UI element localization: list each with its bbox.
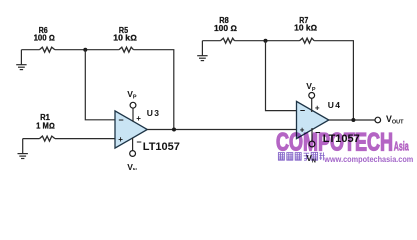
ground (left of R8) — [197, 41, 207, 61]
op-amp U3 VP pin stub — [132, 108, 134, 122]
svg-text:Asia: Asia — [394, 140, 410, 154]
wire node A down to inverting input of U3 — [85, 50, 114, 120]
node A (junction R6/R5/feedback) — [83, 48, 87, 52]
svg-text:1 MΩ: 1 MΩ — [36, 121, 55, 130]
svg-text:100 Ω: 100 Ω — [214, 24, 237, 33]
op-amp U4 body — [297, 101, 329, 138]
wire R1 to non-inverting input of U3 — [55, 138, 115, 140]
resistor R5 — [119, 47, 134, 52]
wire R7 to corner, down to output node — [314, 41, 353, 120]
svg-text:10 kΩ: 10 kΩ — [294, 24, 317, 33]
svg-text:+: + — [118, 135, 123, 144]
svg-text:LT1057: LT1057 — [143, 141, 180, 153]
op-amp U3 VN pin stub — [132, 138, 134, 151]
op-amp U4 VP pin stub — [311, 98, 313, 112]
resistor R8 — [220, 38, 234, 43]
VOUT terminal — [375, 117, 381, 123]
resistor R7 — [300, 38, 315, 43]
ground (left of R6) — [16, 50, 26, 70]
node B (U3 output / feedback junction) — [172, 128, 176, 132]
svg-text:100 Ω: 100 Ω — [34, 34, 55, 43]
wire U3 output to second stage — [147, 129, 296, 131]
op-amp U3 body — [115, 111, 147, 148]
op-amp U3 VP terminal — [130, 102, 136, 108]
op-amp U3 VN terminal — [130, 151, 136, 157]
wire ground to R6 — [21, 49, 39, 51]
svg-text:−: − — [300, 106, 305, 116]
watermark Chinese tagline (drawn glyph blocks) — [278, 152, 324, 160]
wire node C down to inverting input of U4 — [266, 41, 297, 111]
svg-text:www.compotechasia.com: www.compotechasia.com — [323, 154, 413, 164]
wire R5 to corner, down to output node — [134, 50, 174, 130]
node D (U4 output / feedback junction) — [351, 118, 355, 122]
wire R8 to node C — [235, 40, 300, 42]
svg-text:−: − — [118, 115, 123, 125]
op-amp U4 VN pin stub — [311, 128, 313, 141]
svg-text:+: + — [315, 104, 320, 113]
resistor R6 — [39, 47, 55, 52]
svg-text:−: − — [136, 137, 141, 147]
op-amp U4 VN terminal — [309, 141, 315, 147]
svg-text:+: + — [136, 114, 141, 123]
wire ground to R1 — [23, 138, 40, 140]
wire U4 output to VOUT terminal — [329, 119, 375, 121]
svg-text:COMPOTECH: COMPOTECH — [276, 129, 393, 156]
wire R6 to node A — [55, 49, 119, 51]
resistor R1 — [40, 136, 56, 141]
svg-text:10 kΩ: 10 kΩ — [113, 34, 137, 43]
ground (left of R1) — [18, 139, 28, 159]
node C (junction R8/R7/feedback) — [264, 39, 268, 43]
wire ground to R8 — [202, 40, 220, 42]
op-amp U4 VP terminal — [309, 93, 315, 99]
